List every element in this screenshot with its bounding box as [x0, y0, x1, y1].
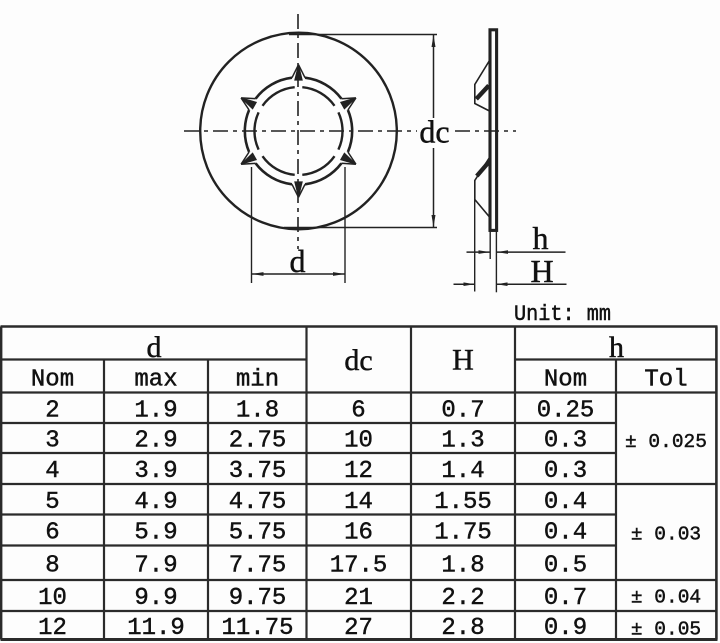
svg-text:3.75: 3.75: [229, 458, 287, 485]
svg-text:7.75: 7.75: [229, 552, 287, 579]
svg-text:17.5: 17.5: [330, 552, 388, 579]
svg-text:Tol: Tol: [644, 367, 687, 394]
svg-text:7.9: 7.9: [134, 552, 177, 579]
svg-text:8: 8: [45, 552, 59, 579]
svg-text:4: 4: [45, 458, 59, 485]
svg-text:11.9: 11.9: [127, 615, 185, 642]
svg-text:6: 6: [351, 397, 365, 424]
svg-text:4.75: 4.75: [229, 489, 287, 516]
svg-text:27: 27: [344, 615, 373, 642]
svg-text:10: 10: [38, 585, 67, 612]
svg-text:Nom: Nom: [31, 367, 74, 394]
svg-text:2: 2: [45, 397, 59, 424]
svg-text:1.9: 1.9: [134, 397, 177, 424]
svg-text:min: min: [236, 367, 279, 394]
svg-text:h: h: [533, 220, 549, 256]
svg-text:12: 12: [38, 615, 67, 642]
svg-text:Unit: mm: Unit: mm: [514, 302, 611, 327]
svg-text:16: 16: [344, 520, 373, 547]
svg-text:max: max: [134, 367, 177, 394]
svg-text:0.25: 0.25: [537, 397, 595, 424]
svg-text:1.3: 1.3: [441, 428, 484, 455]
svg-text:5: 5: [45, 489, 59, 516]
svg-text:2.2: 2.2: [441, 585, 484, 612]
svg-text:12: 12: [344, 458, 373, 485]
svg-text:2.9: 2.9: [134, 428, 177, 455]
svg-text:21: 21: [344, 585, 373, 612]
svg-text:d: d: [147, 331, 162, 364]
svg-text:11.75: 11.75: [221, 615, 293, 642]
svg-text:3.9: 3.9: [134, 458, 177, 485]
svg-text:3: 3: [45, 428, 59, 455]
svg-text:H: H: [530, 253, 553, 289]
svg-text:14: 14: [344, 489, 373, 516]
svg-text:0.9: 0.9: [544, 615, 587, 642]
svg-text:dc: dc: [419, 114, 449, 150]
svg-text:dc: dc: [344, 344, 372, 377]
svg-text:0.3: 0.3: [544, 428, 587, 455]
svg-text:5.9: 5.9: [134, 520, 177, 547]
svg-text:5.75: 5.75: [229, 520, 287, 547]
svg-text:9.75: 9.75: [229, 585, 287, 612]
svg-text:4.9: 4.9: [134, 489, 177, 516]
svg-text:1.75: 1.75: [434, 520, 492, 547]
svg-text:± 0.04: ± 0.04: [631, 587, 701, 609]
svg-text:0.4: 0.4: [544, 489, 587, 516]
svg-text:d: d: [290, 243, 306, 279]
svg-text:0.5: 0.5: [544, 552, 587, 579]
svg-text:2.75: 2.75: [229, 428, 287, 455]
svg-text:h: h: [609, 331, 624, 364]
svg-text:0.7: 0.7: [441, 397, 484, 424]
svg-text:0.3: 0.3: [544, 458, 587, 485]
svg-text:± 0.03: ± 0.03: [631, 524, 701, 546]
svg-text:H: H: [452, 344, 474, 377]
svg-text:Nom: Nom: [544, 367, 587, 394]
svg-text:2.8: 2.8: [441, 615, 484, 642]
svg-text:± 0.025: ± 0.025: [625, 431, 707, 453]
svg-text:0.4: 0.4: [544, 520, 587, 547]
svg-text:6: 6: [45, 520, 59, 547]
svg-text:± 0.05: ± 0.05: [631, 619, 701, 641]
svg-text:0.7: 0.7: [544, 585, 587, 612]
svg-text:1.8: 1.8: [236, 397, 279, 424]
svg-text:1.4: 1.4: [441, 458, 484, 485]
svg-text:1.8: 1.8: [441, 552, 484, 579]
svg-text:1.55: 1.55: [434, 489, 492, 516]
svg-text:10: 10: [344, 428, 373, 455]
svg-text:9.9: 9.9: [134, 585, 177, 612]
